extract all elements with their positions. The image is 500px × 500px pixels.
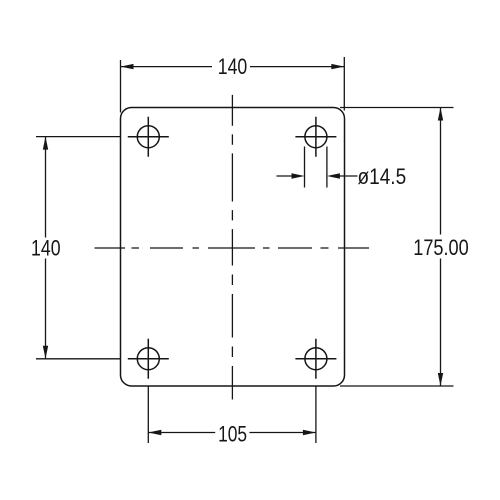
arrowhead dim140 top left: [121, 64, 134, 69]
hole top-right: [295, 117, 336, 157]
dim 175 right: dimension line: [440, 108, 442, 387]
plate outline: [121, 108, 345, 387]
arrowhead dia left: [292, 173, 305, 178]
svg-text:175.00: 175.00: [413, 235, 469, 260]
dim 105 bottom: dimension line: [148, 432, 316, 434]
dim 140 top: dimension line: [121, 66, 345, 68]
vertical centerline: [231, 95, 233, 400]
arrowhead dia right: [327, 173, 340, 178]
hole bottom-left: [128, 339, 169, 379]
dim 140 left: extension lines: [36, 137, 121, 359]
svg-text:140: 140: [218, 54, 248, 79]
dim 105 bottom: extension lines: [148, 387, 316, 444]
dim 175 right: extension lines: [340, 108, 454, 387]
hole bottom-right: [295, 339, 336, 379]
arrowhead dim175 up: [438, 108, 443, 121]
hole top-left: [128, 117, 169, 157]
dim 140 top: extension lines: [121, 57, 345, 113]
horizontal centerline: [95, 247, 370, 249]
arrowhead dim140 left up: [43, 137, 48, 150]
arrowhead dim105 right: [303, 430, 316, 435]
dim 140 left: dimension line: [45, 137, 47, 359]
dim dia14.5: extension lines: [305, 147, 327, 188]
arrowhead dim175 down: [438, 373, 443, 386]
arrowhead dim140 top right: [331, 64, 344, 69]
arrowhead dim140 left down: [43, 346, 48, 359]
arrowhead dim105 left: [148, 430, 161, 435]
svg-text:ø14.5: ø14.5: [358, 164, 407, 189]
svg-text:105: 105: [218, 421, 247, 446]
dim dia14.5: leader lines: [277, 175, 358, 177]
svg-text:140: 140: [31, 236, 61, 261]
